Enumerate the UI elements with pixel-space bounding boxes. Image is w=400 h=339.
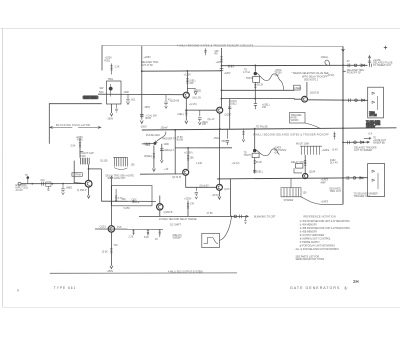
trigger TP blob D3 (153, 142, 156, 145)
wire Q163 collector feed (306, 82, 308, 96)
svg-text:R: R (17, 289, 19, 293)
svg-text:150: 150 (202, 123, 207, 126)
svg-text:8.2K: 8.2K (144, 236, 149, 239)
svg-text:SWEEP: SWEEP (173, 236, 182, 239)
svg-text:⑥ NORMAL DUTY CONTROL: ⑥ NORMAL DUTY CONTROL (300, 237, 332, 240)
tunnel diode D2 column from bus B (254, 129, 256, 149)
svg-text:TRIGGER CKT: TRIGGER CKT (354, 195, 371, 198)
svg-text:150: 150 (303, 192, 308, 195)
pot on H3 (126, 94, 129, 101)
ground arrow V18 (160, 160, 163, 163)
svg-text:.001: .001 (40, 179, 45, 182)
svg-text:R162: R162 (77, 138, 83, 141)
arrow -150V (110, 266, 113, 269)
capacitor branch right of Q154 (187, 87, 197, 91)
transistor Q163 (302, 96, 308, 102)
svg-text:5-25V: 5-25V (124, 207, 131, 210)
svg-text:B15M: B15M (177, 139, 183, 142)
svg-text:BLOCKING OSCILLATOR: BLOCKING OSCILLATOR (56, 123, 90, 127)
wire bus C to blanking row (230, 179, 232, 216)
svg-text:100: 100 (122, 198, 127, 201)
junction bus B at V5 (174, 129, 176, 131)
svg-text:Q154 B: Q154 B (170, 98, 179, 102)
resistor drop 1 on H13 (132, 229, 134, 235)
svg-text:-150V: -150V (280, 149, 287, 152)
resistor Q151 emitter (110, 249, 112, 254)
chain on H5 (342, 99, 344, 101)
svg-text:Q177: Q177 (224, 187, 231, 191)
svg-text:-150V: -150V (213, 137, 220, 140)
wire H12 blanking row (139, 215, 249, 217)
svg-text:AC DC: AC DC (16, 189, 24, 192)
svg-text:27K: 27K (190, 203, 195, 206)
svg-text:R201: R201 (105, 59, 111, 62)
junction H7 at V7 (187, 147, 189, 149)
svg-text:PICKOFF CF: PICKOFF CF (347, 72, 362, 75)
svg-text:4 MILLI SECOND DELAYED GATES &: 4 MILLI SECOND DELAYED GATES & TRIGGER P… (253, 133, 329, 136)
arrow blanking out (246, 215, 249, 217)
svg-text:(0)+0.6V: (0)+0.6V (200, 185, 210, 188)
wire box to Q164 (294, 168, 302, 173)
page top edge (0, 27, 400, 29)
svg-text:-150V: -150V (107, 118, 114, 121)
svg-text:-(0.5V): -(0.5V) (327, 74, 335, 77)
scope trace box (202, 233, 220, 247)
junction H2b at V2 (141, 70, 143, 72)
svg-text:+1V: +1V (275, 74, 280, 77)
svg-text:T32: T32 (114, 244, 119, 247)
wire V17 below D3 (153, 145, 155, 168)
trigger input box (107, 81, 122, 104)
svg-text:⑦ PROBE SUPPLY: ⑦ PROBE SUPPLY (300, 241, 321, 244)
wire vertical V3 upper (221, 48, 223, 107)
resistor V10 above Q164 (304, 155, 306, 173)
junction circle on H12 (234, 215, 237, 218)
capacitor on H12 (240, 215, 242, 219)
sweep gate box (111, 186, 152, 206)
junction H2 at V6 (187, 70, 189, 72)
junction bus B at D2 (254, 128, 256, 130)
wire Q177 emitter stub (218, 190, 220, 196)
svg-text:GATE GENERATORS: GATE GENERATORS (290, 286, 340, 290)
svg-text:+GATE: +GATE (322, 149, 330, 152)
svg-text:15K: 15K (190, 157, 195, 160)
svg-text:Q 150 P: Q 150 P (77, 188, 87, 192)
svg-text:-150V: -150V (144, 106, 151, 109)
small parts left of V4 (333, 132, 335, 140)
resistor drop 3 on H13 (159, 229, 161, 237)
svg-text:DL150: DL150 (101, 160, 109, 163)
resistor V7 above Q174 (187, 148, 189, 169)
svg-text:TRIG: TRIG (108, 78, 114, 81)
wire left border top segment (101, 45, 103, 70)
wire mid rail bus B (142, 128, 397, 130)
svg-text:2.2K: 2.2K (129, 236, 134, 239)
wire lower bus C (217, 178, 368, 179)
svg-text:1MEG: 1MEG (66, 187, 73, 190)
wire H8 into Q174 (140, 173, 183, 175)
svg-text:OUT 47.5K: OUT 47.5K (141, 64, 153, 67)
delay line comb (113, 157, 127, 166)
boxed component on H16 (46, 182, 51, 186)
svg-text:SHAPER: SHAPER (284, 199, 294, 202)
capacitor stub below Q174 emitter wire (195, 187, 198, 196)
svg-text:50Ω: 50Ω (99, 91, 104, 94)
wire delayed trig pickoff stub (343, 70, 346, 72)
wire Q163 to right box H5 (308, 99, 368, 102)
capacitor below Q157 base row (198, 110, 202, 122)
curved wire comb to sweep (301, 197, 343, 205)
ground branch on H3 at x166 (164, 95, 167, 106)
svg-text:(0)+1V: (0)+1V (208, 119, 215, 121)
svg-text:CIRCUIT: CIRCUIT (366, 127, 376, 129)
transformer T150 (81, 158, 90, 165)
svg-text:SWP GATE OUT: SWP GATE OUT (108, 177, 127, 180)
svg-text:+125V: +125V (184, 74, 192, 77)
svg-text:Q164: Q164 (309, 169, 316, 173)
wire Q154 emitter column (185, 98, 187, 120)
svg-text:47.5K: 47.5K (207, 212, 214, 215)
ground branch on H16 (61, 184, 64, 192)
svg-text:TU5: TU5 (117, 226, 122, 229)
wire upper link H4 (222, 89, 295, 91)
svg-text:100K: 100K (124, 91, 130, 94)
resistor column below bus B at 243 (242, 129, 244, 140)
curve scope box to H12 (219, 217, 231, 240)
box D2 bias (252, 153, 259, 157)
capacitor below D1 junction (254, 99, 257, 110)
svg-text:+GATE: +GATE (321, 201, 329, 204)
svg-text:56.2K: 56.2K (257, 83, 264, 86)
svg-text:③ 45B MICROSECOND UNIT & ATTEN: ③ 45B MICROSECOND UNIT & ATTENUATORS (300, 227, 351, 230)
wire comb to bus C (290, 178, 292, 187)
svg-text:+GATE: +GATE (132, 201, 140, 204)
junction base row at Q154 emitter (185, 109, 187, 111)
svg-text:+(2.2V): +(2.2V) (189, 103, 197, 106)
svg-text:PULSE GEN: PULSE GEN (146, 134, 160, 137)
wire left of D3 (142, 143, 154, 145)
svg-text:2H: 2H (353, 279, 359, 284)
svg-text:56.2K: 56.2K (256, 161, 263, 164)
resistor drop 2 on H13 (147, 229, 149, 236)
bottom rule H14 (50, 272, 237, 274)
svg-text:+1V: +1V (274, 152, 279, 155)
dimension arrows blocking oscillator (49, 126, 101, 128)
diode pair in lower box (372, 170, 378, 189)
ground arrow Q154 emitter (185, 121, 188, 124)
ground arrow V2 (140, 121, 143, 124)
resistor below D2 (254, 161, 256, 164)
svg-text:+2.4: +2.4 (368, 133, 373, 135)
tunnel diode D1 (254, 65, 256, 71)
svg-text:⑤ OUTPUT AMPLIFIER: ⑤ OUTPUT AMPLIFIER (300, 234, 325, 237)
wire upper rail H2 (142, 70, 222, 72)
svg-text:5.6K: 5.6K (71, 144, 76, 147)
transistor Q174 (183, 169, 189, 175)
svg-text:Q160 B: Q160 B (164, 210, 173, 214)
wire base row H into Q157 (186, 109, 216, 111)
svg-text:2.2K: 2.2K (115, 66, 120, 69)
trig rate box mid (290, 113, 306, 124)
C trim box (72, 173, 83, 177)
svg-text:SEE NOTE 2: SEE NOTE 2 (304, 78, 319, 81)
svg-text:1.21K: 1.21K (196, 162, 203, 165)
svg-text:-3V: -3V (346, 60, 350, 63)
curved wire into D3 (156, 131, 166, 142)
svg-text:+(125V): +(125V) (184, 152, 193, 155)
transistor Q177 (216, 184, 222, 190)
wire left L into blocking osc (49, 104, 102, 144)
resistor below D1 (254, 85, 256, 88)
svg-text:DELAY STOP: DELAY STOP (291, 161, 306, 164)
svg-text:①: ① (344, 286, 348, 290)
wire top border H1 (102, 45, 343, 46)
junction T150 tap (88, 168, 90, 170)
svg-text:BLANKING TO CRT: BLANKING TO CRT (254, 215, 276, 218)
transistor Q160 (157, 204, 163, 210)
svg-text:+225V: +225V (144, 56, 152, 59)
capacitor on V2 (140, 115, 144, 117)
svg-text:② 454 MEMORY: ② 454 MEMORY (300, 223, 318, 226)
wire T150 left loop (74, 161, 85, 184)
wire right vertical bus V4 (342, 46, 344, 204)
svg-text:Q163 B: Q163 B (310, 91, 319, 95)
svg-text:DLY 4X: DLY 4X (330, 163, 338, 165)
junction H4 at V3 (221, 89, 223, 91)
svg-text:TRIG OUT: TRIG OUT (330, 190, 342, 193)
transistor blob in trigger box (109, 87, 113, 91)
pulse shaper comb lower (281, 188, 301, 197)
svg-text:+(0.5V): +(0.5V) (212, 194, 220, 197)
svg-text:10.3K: 10.3K (102, 251, 109, 254)
wire Q174 emitter to Q177 (186, 175, 217, 187)
svg-text:+125V: +125V (224, 72, 231, 75)
wire upper link H4b (221, 98, 301, 101)
svg-text:4 MILLI SECOND GATES & TRIGGER: 4 MILLI SECOND GATES & TRIGGER PICKOFF C… (177, 44, 254, 47)
junction dots H16 (32, 183, 34, 185)
wire left rail V2 (141, 46, 143, 120)
svg-text:① 454 MICROSECOND UNIT & ATTEN: ① 454 MICROSECOND UNIT & ATTENUATORS (300, 220, 350, 223)
svg-text:B150: B150 (146, 117, 152, 120)
transistor Q164 (303, 173, 308, 178)
svg-text:Q157: Q157 (225, 112, 232, 116)
wire Q157 emitter to bus B (219, 113, 221, 129)
junction H4b at D1 column (254, 98, 256, 100)
wire V5 lower-left rail (174, 130, 176, 174)
resistor V6 above Q154 (186, 71, 188, 92)
delay stop box (295, 164, 303, 169)
wire short vertical x230 (229, 99, 231, 129)
capacitor V18 (161, 144, 163, 160)
svg-text:(SEL): (SEL) (178, 113, 184, 116)
svg-text:(0)-1.5V: (0)-1.5V (193, 96, 202, 99)
svg-text:33K: 33K (189, 82, 194, 85)
svg-text:ATTEN: ATTEN (369, 114, 377, 117)
wire H11 (101, 200, 155, 202)
svg-text:TRIGGER TP: TRIGGER TP (162, 138, 177, 141)
capacitor left (80, 151, 84, 153)
wire Q160 below (159, 210, 161, 217)
resistor Q154 emitter (185, 111, 187, 116)
svg-text:DC SHIFT: DC SHIFT (170, 223, 182, 226)
svg-text:1K: 1K (155, 238, 158, 241)
resistor above trigger box (110, 64, 112, 75)
svg-text:④ 45B MEMORY: ④ 45B MEMORY (300, 230, 318, 233)
svg-text:B(SEL): B(SEL) (145, 155, 153, 158)
junction H11 (133, 200, 135, 202)
ext trig connector (18, 182, 21, 185)
curl hook on H2 right (325, 60, 330, 65)
upper right chain on H2 (342, 64, 344, 66)
svg-text:SW160: SW160 (291, 119, 300, 122)
wire below trigger box (111, 104, 113, 113)
curve from trig rate box to bus B (305, 123, 320, 128)
multivibrator comb upper right (300, 146, 322, 155)
svg-text:ALL ⑨ FOR DELAYED UNIT NETWORK: ALL ⑨ FOR DELAYED UNIT NETWORKS (296, 248, 340, 251)
svg-text:SEMICONDUCTOR TYPES: SEMICONDUCTOR TYPES (296, 259, 325, 261)
svg-text:100K: 100K (164, 143, 170, 146)
page left edge (1, 28, 3, 307)
svg-text:TO SWEEP OUT: TO SWEEP OUT (373, 64, 392, 67)
svg-text:⑧ FOR DELAY UNIT NETWORKS: ⑧ FOR DELAY UNIT NETWORKS (300, 244, 336, 247)
small part top V3 area (204, 48, 207, 55)
plus mark top right (384, 46, 387, 49)
svg-text:-150V: -150V (107, 270, 114, 273)
svg-text:24 MILLI SECOND DELAY RANGE: 24 MILLI SECOND DELAY RANGE (159, 218, 197, 221)
svg-text:.001: .001 (131, 99, 136, 102)
svg-text:TD150: TD150 (246, 77, 254, 80)
page bottom edge (2, 306, 400, 308)
svg-text:+ 30: + 30 (164, 168, 169, 171)
svg-text:Q174 B: Q174 B (172, 175, 181, 179)
svg-text:(SEL): (SEL) (257, 171, 263, 174)
junction bus B at Q157 (219, 128, 221, 130)
resistor ticks on V3 top (220, 57, 222, 62)
wire V12 to Q151 (111, 178, 113, 226)
pigtail wire from D2 (256, 149, 279, 156)
svg-text:4.7mA: 4.7mA (243, 71, 250, 74)
svg-text:4 MILLI SEC OUTPUT SYSTEM: 4 MILLI SEC OUTPUT SYSTEM (168, 270, 203, 273)
wire Q160 above (159, 196, 161, 204)
wire H13 Q151 row (95, 228, 163, 230)
resistor marks on H2 (228, 65, 233, 68)
transistor Q151 (108, 226, 114, 232)
junction H4b at V3 (221, 98, 223, 100)
wire V16 down (100, 169, 102, 201)
wire Q151 emitter column (110, 232, 112, 266)
wire below D1 (254, 82, 256, 98)
wire Q177 collector from bus B (219, 129, 221, 184)
right row H20 (343, 141, 370, 143)
svg-text:1(SEL): 1(SEL) (294, 87, 302, 90)
svg-text:.001: .001 (197, 89, 202, 92)
svg-text:1(SEL)4.7: 1(SEL)4.7 (164, 149, 175, 152)
svg-text:Q151: Q151 (100, 225, 107, 229)
resistor on wire left of D3 (145, 143, 150, 145)
resistor +225V drop to H12 (187, 201, 189, 217)
junction H2 at V3 (221, 65, 223, 67)
svg-text:150: 150 (131, 163, 136, 166)
wire trigger input row H3 (98, 93, 183, 96)
svg-text:AMP: AMP (321, 181, 327, 184)
svg-text:MULTI 100K: MULTI 100K (296, 143, 310, 146)
box D1 bias (253, 76, 260, 82)
svg-text:T150: T150 (80, 155, 86, 158)
transistor Q154 (183, 92, 189, 98)
wire upper rail H2 right (222, 64, 368, 66)
svg-text:+225V: +225V (216, 61, 224, 64)
svg-text:OUT TO SWEEP: OUT TO SWEEP (354, 149, 373, 152)
chain on bus C right (342, 177, 344, 179)
svg-text:+(1.2V): +(1.2V) (232, 162, 240, 165)
capacitor on V3 (220, 69, 224, 71)
resistor in sweep gate box (115, 189, 117, 202)
wire ext trig row H16 (21, 183, 85, 185)
svg-text:C TRIM: C TRIM (73, 174, 81, 177)
svg-text:56K: 56K (222, 140, 227, 143)
svg-text:+225V: +225V (184, 198, 192, 201)
svg-text:EXT TRIG: EXT TRIG (84, 96, 97, 100)
svg-text:1(SEL): 1(SEL) (321, 56, 329, 59)
wire T150 bottom to Q150 base (88, 164, 90, 180)
C162 box on H4 (294, 85, 301, 90)
svg-text:TYPE 661: TYPE 661 (54, 286, 77, 290)
svg-text:-150V: -150V (140, 126, 147, 129)
resistor +225 feed left (79, 138, 81, 158)
capacitor below D2 (253, 170, 256, 172)
svg-text:150mF: 150mF (161, 127, 169, 129)
svg-text:TRIG: TRIG (145, 144, 151, 147)
diode pair in upper box (372, 92, 378, 110)
pickoff box lower (368, 164, 385, 197)
pickoff box upper (368, 87, 384, 118)
svg-text:1(SEL): 1(SEL) (229, 103, 237, 106)
wire Q150 emitter stub (88, 187, 90, 195)
trigger label box (filled) (83, 95, 99, 99)
pigtail wire from D1 (257, 73, 281, 81)
transistor Q157 (217, 107, 223, 113)
svg-text:TP: TP (25, 175, 28, 177)
svg-text:TD PULSE: TD PULSE (256, 126, 268, 129)
svg-text:150: 150 (262, 106, 267, 109)
junction H2 at D1 (254, 65, 256, 67)
wire below D2 (254, 158, 256, 174)
svg-text:REFERENCE NOTATION: REFERENCE NOTATION (304, 216, 336, 219)
tunnel diode D2 (253, 149, 256, 152)
capacitor stub below bus B at 227 (226, 129, 229, 145)
wire T150 to delay line (89, 168, 102, 170)
svg-text:TD175: TD175 (244, 154, 252, 157)
svg-text:SWEEP BD: SWEEP BD (373, 142, 385, 144)
junction bus B at V4 (342, 127, 344, 129)
svg-text:* MEANS SELECTED VALUE SEE: * MEANS SELECTED VALUE SEE (292, 72, 330, 75)
capacitor on H16 (42, 182, 44, 186)
waveform in scope box (204, 238, 219, 244)
test point dot above wire (27, 176, 30, 179)
wire H7 lower link (175, 147, 232, 149)
pigtail tail drop (281, 81, 284, 91)
svg-text:+2.4V: +2.4V (332, 148, 339, 151)
second branch below trig box (115, 104, 118, 112)
transistor Q150 blocking osc (85, 180, 92, 187)
